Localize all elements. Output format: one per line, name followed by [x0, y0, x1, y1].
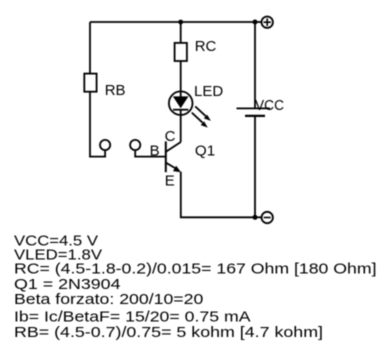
wire: stub to + terminal — [255, 21, 262, 23]
svg-text:RB= (4.5-0.7)/0.75= 5 kohm [4.: RB= (4.5-0.7)/0.75= 5 kohm [4.7 kohm] — [14, 324, 323, 341]
wire: left vertical from top rail down to RB — [89, 22, 91, 74]
resistor RB — [84, 74, 96, 92]
junction dot at top RC branch — [178, 20, 183, 25]
svg-text:LED: LED — [194, 83, 223, 100]
node: open terminal (base side) — [130, 140, 140, 150]
transistor Q1: base bar — [165, 141, 167, 172]
wire: battery positive lead — [254, 22, 256, 108]
wire: top rail from RB branch to battery + — [90, 21, 255, 23]
svg-text:VCC: VCC — [255, 97, 284, 114]
wire: LED cathode down to Q1 collector — [180, 110, 182, 142]
battery VCC: long positive plate — [237, 107, 271, 109]
wire: emitter down and bottom rail to battery - — [181, 172, 255, 218]
LED: body circle — [169, 91, 193, 115]
terminal: plus sign inside + circle — [264, 18, 271, 26]
terminal: - supply circle — [262, 212, 273, 223]
transistor Q1: collector diagonal — [166, 142, 181, 152]
svg-text:RB: RB — [105, 82, 126, 99]
svg-text:B: B — [150, 142, 160, 159]
transistor Q1: emitter diagonal — [166, 163, 176, 169]
svg-text:Beta forzato: 200/10=20: Beta forzato: 200/10=20 — [14, 291, 203, 308]
junction dot at bottom battery - — [253, 215, 258, 220]
LED: light arrow 2 head — [201, 121, 208, 127]
wire: RC bottom to LED anode — [180, 61, 182, 97]
wire: stub to - terminal — [255, 216, 262, 218]
battery VCC: short negative plate — [245, 115, 265, 117]
wire: RB bottom down to switch terminal branch — [90, 92, 105, 157]
LED: light arrow 1 head — [204, 115, 211, 121]
LED: light arrow 2 shaft — [192, 113, 203, 123]
wire: RC branch from top rail junction — [180, 22, 182, 43]
LED: cathode bar — [173, 109, 188, 111]
junction dot at top battery + — [253, 20, 258, 25]
LED: triangle (anode) — [173, 96, 189, 108]
terminal: minus sign inside - circle — [264, 217, 271, 219]
svg-text:RC: RC — [195, 38, 217, 55]
LED: light arrow 1 shaft — [195, 106, 206, 116]
wire: battery negative lead — [254, 116, 256, 217]
svg-text:Q1: Q1 — [195, 143, 215, 160]
svg-text:C: C — [165, 128, 176, 145]
resistor RC — [175, 43, 187, 61]
wire: base terminal stub and base lead to Q1 — [135, 151, 166, 157]
transistor Q1: emitter arrowhead — [173, 166, 181, 173]
svg-text:E: E — [165, 173, 175, 190]
terminal: + supply circle — [262, 17, 273, 28]
node: open terminal (RB side) — [100, 140, 110, 150]
